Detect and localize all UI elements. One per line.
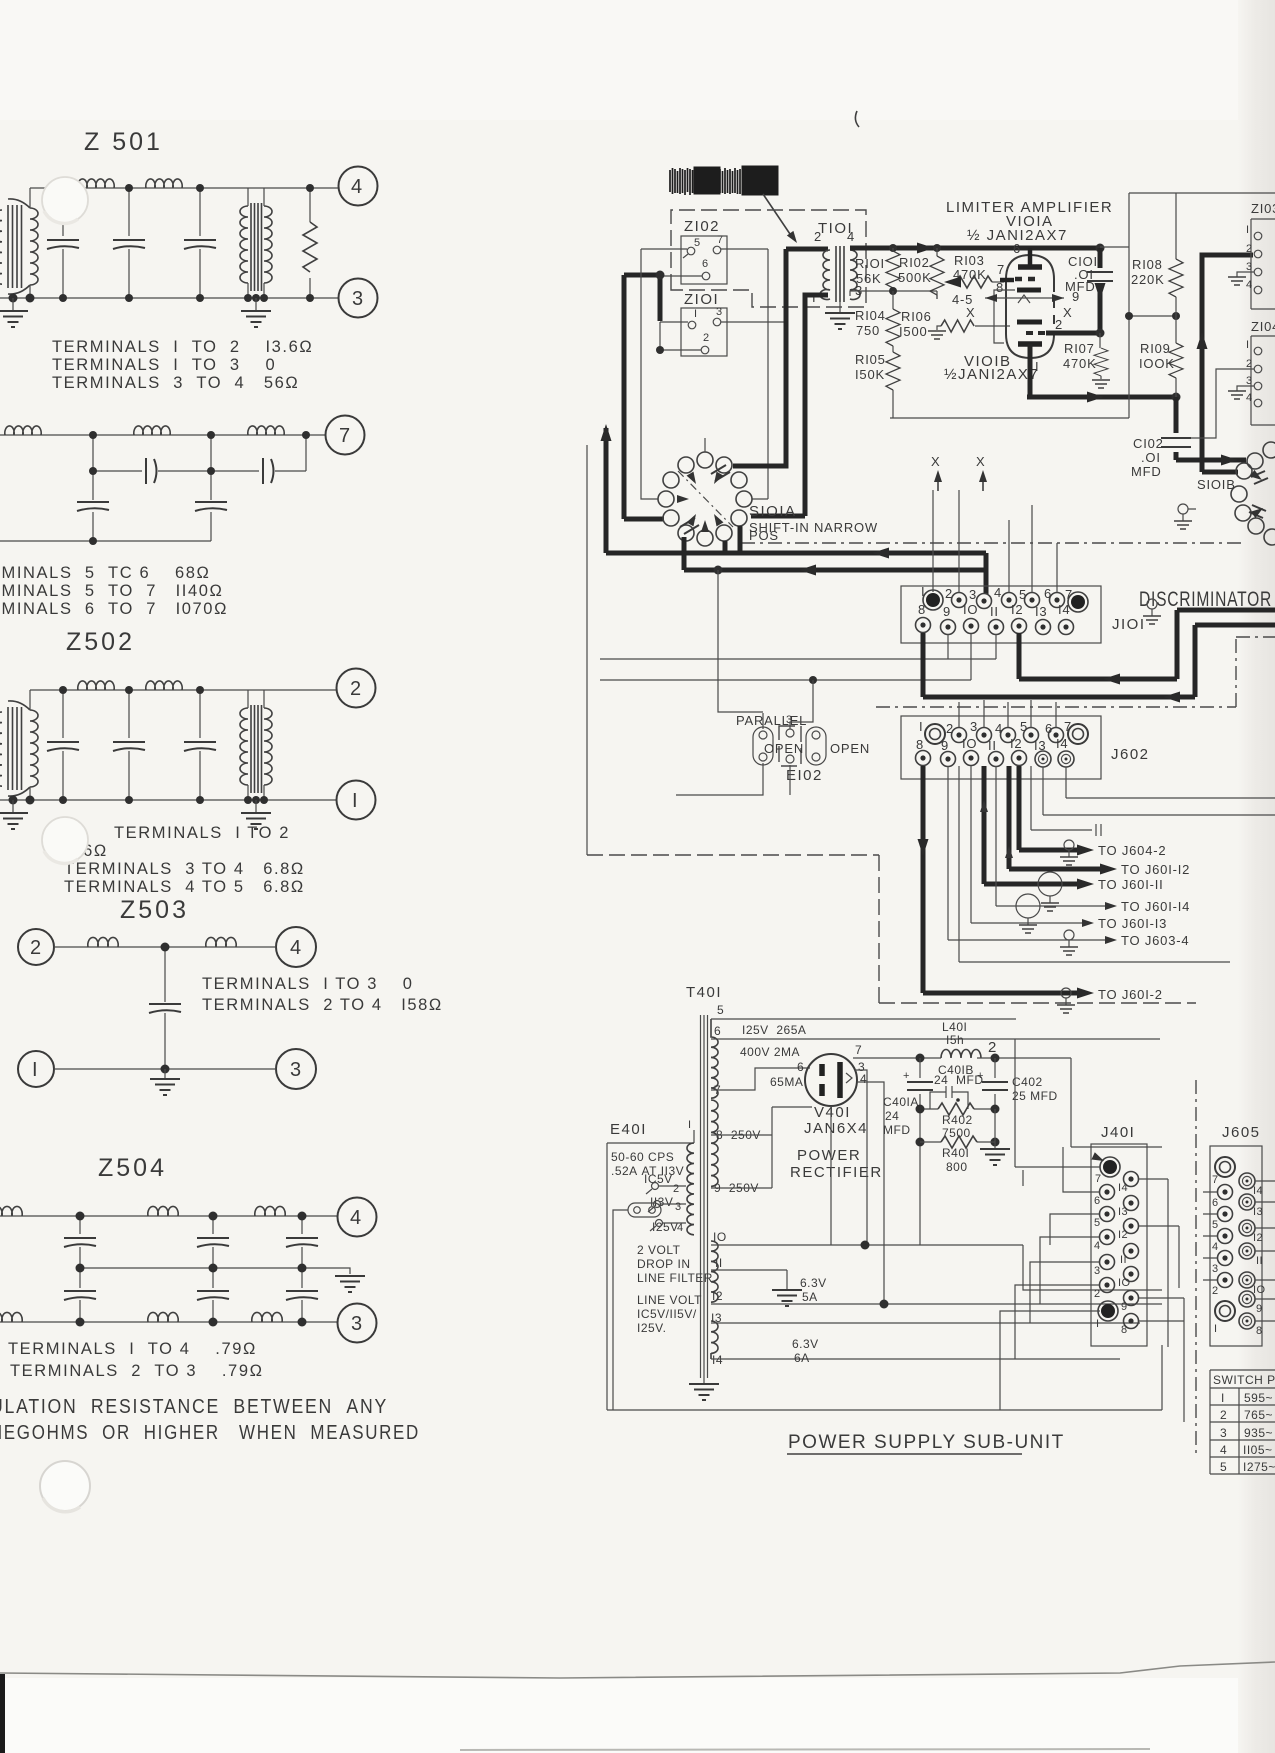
svg-text:J605: J605 [1222, 1124, 1261, 1141]
svg-text:TO J60I-I4: TO J60I-I4 [1121, 899, 1190, 914]
svg-text:OPEN: OPEN [764, 741, 804, 756]
svg-text:DISCRIMINATOR: DISCRIMINATOR [1139, 588, 1272, 611]
wire from Z101 pin3 [721, 321, 786, 323]
svg-text:6: 6 [1212, 1197, 1219, 1209]
wire bottom Z503 [54, 1068, 276, 1070]
shunt capacitor Cc [92, 471, 94, 541]
svg-text:.OI: .OI [1141, 450, 1161, 465]
svg-text:TERMINALS I TO 3 0: TERMINALS I TO 3 0 [202, 975, 414, 993]
wire to Z102 pin6 [662, 275, 702, 277]
svg-text:½JANI2AX7: ½JANI2AX7 [944, 366, 1039, 383]
svg-text:25 MFD: 25 MFD [1012, 1089, 1058, 1103]
svg-text:I: I [1246, 339, 1249, 351]
svg-text:2: 2 [814, 229, 822, 244]
node wire y291 [936, 291, 938, 299]
terminal 4 [338, 1198, 377, 1237]
shunt capacitor Cd [210, 471, 212, 541]
svg-text:JIOI: JIOI [1112, 616, 1146, 633]
heater annotation 4-5 / 9 [985, 295, 1064, 303]
svg-text:2: 2 [946, 721, 954, 736]
svg-text:I2: I2 [1011, 602, 1023, 617]
svg-text:EI02: EI02 [786, 767, 823, 784]
resistor R108 [1175, 193, 1177, 316]
svg-text:2: 2 [350, 678, 363, 700]
svg-text:RMINALS 6 TO 7 I070Ω: RMINALS 6 TO 7 I070Ω [0, 600, 228, 618]
svg-text:4: 4 [1246, 279, 1253, 291]
node dots Z501 [9, 184, 315, 303]
svg-text:6: 6 [1044, 586, 1052, 601]
svg-text:IO: IO [1118, 1277, 1130, 1289]
svg-text:I: I [688, 1119, 691, 1131]
svg-text:V40I: V40I [814, 1104, 851, 1121]
R402 resistor [938, 1103, 974, 1115]
svg-text:2: 2 [703, 332, 710, 344]
svg-text:RECTIFIER: RECTIFIER [790, 1164, 883, 1181]
T401 secondary winding [711, 1019, 718, 1098]
J401 left leads [1015, 1039, 1100, 1167]
resistor R104 [892, 291, 894, 309]
V401 rectifier tube [805, 1054, 857, 1106]
wire top bus Z502 [30, 689, 336, 691]
svg-text:RI03: RI03 [954, 253, 985, 268]
S101A stubs [704, 438, 706, 452]
svg-text:TO J60I-I3: TO J60I-I3 [1098, 916, 1167, 931]
svg-text:I2: I2 [712, 1289, 723, 1303]
inductor L-Z504-b [148, 1206, 178, 1216]
svg-text:9: 9 [943, 604, 951, 619]
J602 pin8 thick down to J601-2 [923, 766, 1086, 993]
J602 pins row1 [925, 724, 945, 744]
resistor R105 [892, 346, 894, 352]
svg-text:II05~: II05~ [1243, 1443, 1273, 1457]
svg-text:3: 3 [675, 1201, 682, 1213]
svg-text:4: 4 [677, 1222, 684, 1234]
J602 connector box [901, 716, 1101, 779]
svg-text:2: 2 [1246, 358, 1253, 370]
ground G-Z501-L [12, 298, 14, 311]
inductor L-Z504-c [255, 1206, 285, 1216]
svg-text:2: 2 [673, 1183, 680, 1195]
svg-text:8: 8 [918, 602, 926, 617]
svg-text:I275~: I275~ [1243, 1460, 1275, 1474]
resistor R103 [956, 276, 992, 288]
svg-text:IO: IO [963, 602, 978, 617]
svg-text:I4: I4 [1056, 736, 1068, 751]
svg-text:3: 3 [716, 306, 723, 318]
svg-text:ZIOI: ZIOI [684, 291, 719, 308]
J101 wires up [933, 490, 1057, 592]
svg-text:65MA: 65MA [770, 1075, 803, 1089]
svg-text:8: 8 [996, 280, 1004, 295]
svg-text:7: 7 [1095, 1173, 1102, 1185]
svg-text:Z 501: Z 501 [84, 128, 163, 156]
pin1 thick lead [1028, 344, 1033, 397]
ground G-Z501-R [255, 298, 257, 311]
ground G-Z504 [335, 1276, 365, 1292]
svg-text:SIOIA: SIOIA [749, 503, 797, 520]
J602 col4 thick down to J601-12 [1009, 766, 1109, 869]
svg-text:II: II [1120, 1254, 1127, 1266]
svg-text:3: 3 [1246, 375, 1253, 387]
svg-text:5: 5 [1020, 719, 1028, 734]
svg-text:I3: I3 [1034, 738, 1046, 753]
T401 core [701, 1015, 708, 1378]
inductor L5b [134, 426, 170, 435]
svg-text:3: 3 [1094, 1265, 1101, 1277]
inductor L-Z501-b [146, 179, 182, 188]
svg-text:I3: I3 [1253, 1206, 1263, 1218]
S101A rotary switch [658, 452, 752, 546]
svg-text:6: 6 [797, 1060, 804, 1074]
capacitor C-Z503 [164, 947, 166, 1069]
svg-text:+: + [903, 1070, 910, 1082]
T401 primary winding [687, 1143, 694, 1235]
svg-text:TERMINALS 2 TO 4 I58Ω: TERMINALS 2 TO 4 I58Ω [202, 996, 443, 1014]
boundary dash-dot separator lower [876, 637, 1275, 707]
svg-text:5: 5 [694, 237, 701, 249]
svg-text:TERMINALS I TO 4 .79Ω: TERMINALS I TO 4 .79Ω [8, 1340, 257, 1358]
svg-text:2: 2 [1212, 1285, 1219, 1297]
J602 pin10 thin to J601-13 [971, 766, 1086, 923]
svg-text:220K: 220K [1131, 272, 1165, 287]
svg-text:8: 8 [916, 737, 924, 752]
svg-text:3: 3 [969, 587, 977, 602]
svg-text:II: II [715, 1256, 723, 1270]
svg-text:3: 3 [1220, 1426, 1227, 1440]
svg-text:RI09: RI09 [1140, 341, 1171, 356]
J602 pin12 thick down to J604-2 [1019, 766, 1086, 850]
thin wire x718 down to E102 [718, 570, 763, 712]
svg-text:I: I [1214, 1323, 1217, 1335]
thin box wires around R108/R109 [1100, 193, 1275, 418]
svg-text:I2: I2 [1253, 1232, 1263, 1244]
long thin wires y659 y680 [600, 659, 996, 680]
crease line near bottom [0, 1662, 1275, 1678]
capacitor C-Z504-2a [212, 1216, 214, 1268]
ground under R102/R106 [928, 331, 946, 339]
transformer T-Z501-out [240, 188, 272, 298]
svg-text:Z503: Z503 [120, 896, 189, 924]
inductor L-Z504-e [148, 1312, 178, 1322]
svg-text:I25V.: I25V. [637, 1321, 666, 1335]
V401 pin7 wire to L401 [853, 1057, 941, 1059]
svg-text:4: 4 [995, 721, 1003, 736]
svg-text:MEGOHMS OR HIGHER WHEN ME: MEGOHMS OR HIGHER WHEN MEASURED [0, 1422, 420, 1444]
svg-text:3: 3 [1246, 261, 1253, 273]
thick riser to Z103 [1202, 255, 1253, 472]
svg-text:C402: C402 [1012, 1075, 1043, 1089]
svg-text:+: + [977, 1070, 984, 1082]
svg-text:24: 24 [885, 1109, 899, 1123]
J602 pin9 thin to J603-4 [948, 766, 1109, 940]
ground G-Z502-R [255, 800, 257, 813]
Z104 pins [1254, 347, 1262, 407]
capacitor C-Z504-1a [79, 1216, 81, 1268]
capacitor C-Z501-3 [199, 188, 201, 298]
resistor R-Z501 [309, 188, 311, 298]
svg-text:4: 4 [860, 1072, 867, 1086]
J602 pin13 thin right [1043, 767, 1275, 815]
svg-text:2: 2 [945, 586, 953, 601]
node dots Z504 [76, 1212, 307, 1327]
svg-text:J40I: J40I [1101, 1124, 1135, 1141]
thick plate bus y248 [850, 246, 1100, 251]
resistor R101 [892, 248, 894, 291]
svg-text:6: 6 [1013, 241, 1021, 256]
svg-text:POWER: POWER [797, 1147, 861, 1164]
svg-text:X: X [1063, 305, 1072, 320]
thick stub down to Z101 row [658, 275, 663, 321]
svg-text:2: 2 [1055, 317, 1063, 332]
series capacitor Ca [146, 458, 157, 484]
thick bus x624 [624, 275, 664, 519]
ground G-Z502-L [12, 800, 14, 813]
svg-text:TO J603-4: TO J603-4 [1121, 933, 1189, 948]
svg-text:3: 3 [1212, 1263, 1219, 1275]
svg-text:IO: IO [962, 736, 977, 751]
svg-text:TERMINALS 3 TO 4 56Ω: TERMINALS 3 TO 4 56Ω [52, 374, 299, 392]
heater ground mid [1022, 1170, 1024, 1186]
svg-text:II: II [990, 604, 999, 619]
J101 pins row2 [916, 618, 931, 633]
terminal 3 [276, 1049, 316, 1089]
svg-text:6.3V: 6.3V [792, 1337, 819, 1351]
svg-text:5A: 5A [802, 1290, 818, 1304]
svg-text:4: 4 [1220, 1443, 1227, 1457]
J605 leads [1203, 1192, 1217, 1280]
J602 pin14 thin right [1066, 767, 1275, 798]
T101 ground [839, 302, 841, 313]
inward arrows [711, 472, 724, 486]
svg-text:750: 750 [856, 323, 880, 338]
inductor L-Z501-a [78, 179, 114, 188]
svg-text:400V 2MA: 400V 2MA [740, 1045, 800, 1059]
capacitor C102 [1174, 397, 1179, 460]
svg-text:8: 8 [1256, 1325, 1263, 1337]
svg-text:ZI03: ZI03 [1251, 201, 1275, 216]
terminal with ground near discriminator [1147, 599, 1157, 609]
ground at C402/R401 [994, 1142, 996, 1149]
rotor axis dash [678, 471, 733, 527]
svg-text:7: 7 [1064, 719, 1072, 734]
J602 stubs up [959, 700, 1056, 727]
svg-text:RI06: RI06 [901, 309, 932, 324]
svg-text:9: 9 [941, 738, 949, 753]
inductor L-Z502-a [78, 681, 114, 690]
svg-text:ZI04: ZI04 [1251, 319, 1275, 334]
J602 pin5 thin down [1031, 766, 1101, 836]
svg-text:2: 2 [1246, 243, 1253, 255]
svg-text:7: 7 [855, 1043, 862, 1057]
svg-text:IC5V/II5V/: IC5V/II5V/ [637, 1307, 697, 1321]
tube V101 envelope [1006, 255, 1054, 330]
boundary dash-dot separator upper [741, 542, 1243, 544]
svg-text:6: 6 [702, 258, 709, 270]
X net arrows above separator [937, 474, 939, 491]
inductor L-Z504-f [252, 1312, 282, 1322]
svg-text:POS: POS [749, 528, 779, 543]
svg-text:ULATION RESISTANCE BETWEEN: ULATION RESISTANCE BETWEEN ANY [0, 1396, 388, 1418]
capacitor C-Z501-1 [62, 188, 64, 298]
svg-text:7: 7 [339, 425, 352, 447]
svg-text:595~: 595~ [1244, 1391, 1273, 1405]
svg-text:X: X [931, 454, 940, 469]
wire bottom bus Z504 [0, 1321, 337, 1323]
thick cathode bus y397 [1027, 395, 1176, 400]
terminal 2 [18, 929, 54, 965]
svg-text:I3: I3 [1035, 604, 1047, 619]
svg-text:7: 7 [997, 262, 1005, 277]
capacitor C-Z502-1 [62, 690, 64, 800]
terminal 1 [337, 781, 376, 820]
Z101 box [681, 308, 727, 356]
svg-text:JAN6X4: JAN6X4 [804, 1120, 868, 1137]
inductor L-Z504-a (cut) [0, 1206, 22, 1216]
svg-text:J602: J602 [1111, 746, 1150, 763]
section B dashed bar to pin2 [1026, 331, 1048, 335]
wire bottom bus [0, 540, 211, 542]
J101 connector box [901, 586, 1101, 643]
wire bottom bus Z502 [0, 799, 336, 801]
node dots Z503 [161, 943, 170, 1074]
svg-text:2 VOLT: 2 VOLT [637, 1243, 681, 1257]
svg-text:X: X [976, 454, 985, 469]
svg-text:RI07: RI07 [1064, 341, 1095, 356]
J101 pin12 thick down [1019, 610, 1275, 679]
svg-text:3: 3 [970, 719, 978, 734]
svg-text:MFD: MFD [1131, 464, 1162, 479]
J401 right leads [1139, 1179, 1184, 1422]
thick bus into T101 pin2 [786, 247, 828, 252]
svg-text:RIOI: RIOI [855, 256, 885, 271]
svg-text:R40I: R40I [942, 1146, 969, 1160]
svg-text:I2: I2 [1118, 1229, 1128, 1241]
svg-text:SWITCH POSI: SWITCH POSI [1213, 1373, 1275, 1387]
boundary dashed power supply [587, 855, 1196, 1003]
thick bus y570 [684, 568, 986, 573]
resistor R107 [1100, 333, 1101, 379]
svg-text:C40IA: C40IA [883, 1095, 919, 1109]
series capacitor Cb [263, 458, 274, 484]
dash-dot page divider right bottom [1195, 1080, 1197, 1458]
svg-text:IOOK: IOOK [1139, 356, 1175, 371]
svg-text:TERMINALS I TO 3 0: TERMINALS I TO 3 0 [52, 356, 276, 374]
capacitor C-Z502-3 [199, 690, 201, 800]
thin unit boundary vertical [586, 445, 588, 855]
svg-text:9: 9 [1256, 1303, 1263, 1315]
J101 pins row1 [923, 590, 943, 610]
svg-text:2: 2 [988, 1039, 996, 1056]
transformer T-Z502-in (cut) [8, 690, 38, 800]
svg-text:2: 2 [1094, 1288, 1101, 1300]
svg-text:4: 4 [1246, 392, 1253, 404]
Z103 ground [1237, 272, 1254, 277]
svg-text:5: 5 [717, 1003, 724, 1017]
svg-text:RI02: RI02 [899, 255, 930, 270]
svg-text:POWER SUPPLY SUB-UNIT: POWER SUPPLY SUB-UNIT [788, 1432, 1065, 1453]
svg-text:I25V 265A: I25V 265A [742, 1023, 806, 1037]
S101B rotary switch partial [1231, 442, 1275, 545]
svg-text:I50K: I50K [855, 367, 885, 382]
svg-text:5: 5 [1212, 1219, 1219, 1231]
svg-text:5: 5 [1094, 1217, 1101, 1229]
svg-text:I: I [1221, 1391, 1225, 1405]
svg-text:4: 4 [351, 176, 364, 198]
svg-text:4: 4 [1212, 1241, 1219, 1253]
terminal 4 [276, 927, 316, 967]
grid A dashed bar + pin7/8 [1015, 277, 1040, 282]
svg-text:6A: 6A [794, 1351, 810, 1365]
svg-text:7: 7 [717, 234, 724, 246]
resistor R106 [941, 320, 974, 332]
svg-text:MFD: MFD [1065, 279, 1096, 294]
T401 ground [703, 1378, 705, 1384]
svg-text:I: I [32, 1059, 40, 1081]
svg-text:500K: 500K [898, 270, 932, 285]
svg-text:7: 7 [1212, 1174, 1219, 1186]
svg-text:TERMINALS I TO 2: TERMINALS I TO 2 [114, 824, 290, 842]
svg-text:I500: I500 [899, 324, 928, 339]
svg-text:3: 3 [786, 714, 793, 726]
svg-text:6.3V: 6.3V [800, 1276, 827, 1290]
capacitor C-Z501-2 [128, 188, 130, 298]
svg-text:Z502: Z502 [66, 628, 135, 656]
thick bus vertical x786 down to S101A [733, 249, 786, 466]
svg-text:4: 4 [847, 229, 855, 244]
svg-text:4: 4 [290, 937, 303, 959]
black corner strip bottom-left [0, 1674, 5, 1753]
J602 col3 thick down to J601-11 [984, 766, 1086, 884]
wire to Z101 pin2 [660, 349, 701, 351]
svg-text:I4: I4 [712, 1353, 723, 1367]
svg-text:7: 7 [1065, 587, 1073, 602]
svg-text:6: 6 [714, 1024, 721, 1038]
svg-text:TO J60I-2: TO J60I-2 [1098, 987, 1163, 1002]
terminal 3 [339, 279, 378, 318]
terminal 4 [339, 167, 378, 206]
node dots [89, 431, 310, 545]
cathode A bar [1017, 288, 1041, 293]
svg-text:TERMINALS I TO 2 I3.6Ω: TERMINALS I TO 2 I3.6Ω [52, 338, 313, 356]
svg-text:6: 6 [1094, 1195, 1101, 1207]
svg-text:5: 5 [1019, 587, 1027, 602]
svg-text:5: 5 [1220, 1460, 1227, 1474]
inductor L5c [248, 426, 284, 435]
ground under R107 [1092, 380, 1110, 388]
svg-text:LINE VOLT: LINE VOLT [637, 1293, 702, 1307]
svg-text:935~: 935~ [1244, 1426, 1273, 1440]
R105 bottom wire to y418 [890, 390, 1129, 418]
J602 pins row2 [916, 751, 931, 766]
svg-text:I: I [921, 584, 925, 599]
plate B bar [1018, 341, 1042, 347]
inductor L-Z503-b [206, 937, 236, 947]
svg-text:I2: I2 [1010, 736, 1022, 751]
wire top bus Z504 [0, 1215, 337, 1217]
svg-text:I4: I4 [1118, 1182, 1128, 1194]
E102 middle pair dashed [779, 726, 801, 766]
transformer T-Z502-out [240, 690, 272, 800]
capacitor C101 [1098, 248, 1103, 333]
rotor wedges [680, 465, 730, 534]
punch hole middle [42, 817, 88, 863]
svg-text:50-60 CPS: 50-60 CPS [611, 1150, 674, 1164]
svg-text:2: 2 [30, 937, 43, 959]
ground G-Z503 [164, 1069, 166, 1079]
svg-text:I: I [694, 308, 697, 320]
svg-text:L40I: L40I [942, 1020, 967, 1034]
svg-text:OPEN: OPEN [830, 741, 870, 756]
